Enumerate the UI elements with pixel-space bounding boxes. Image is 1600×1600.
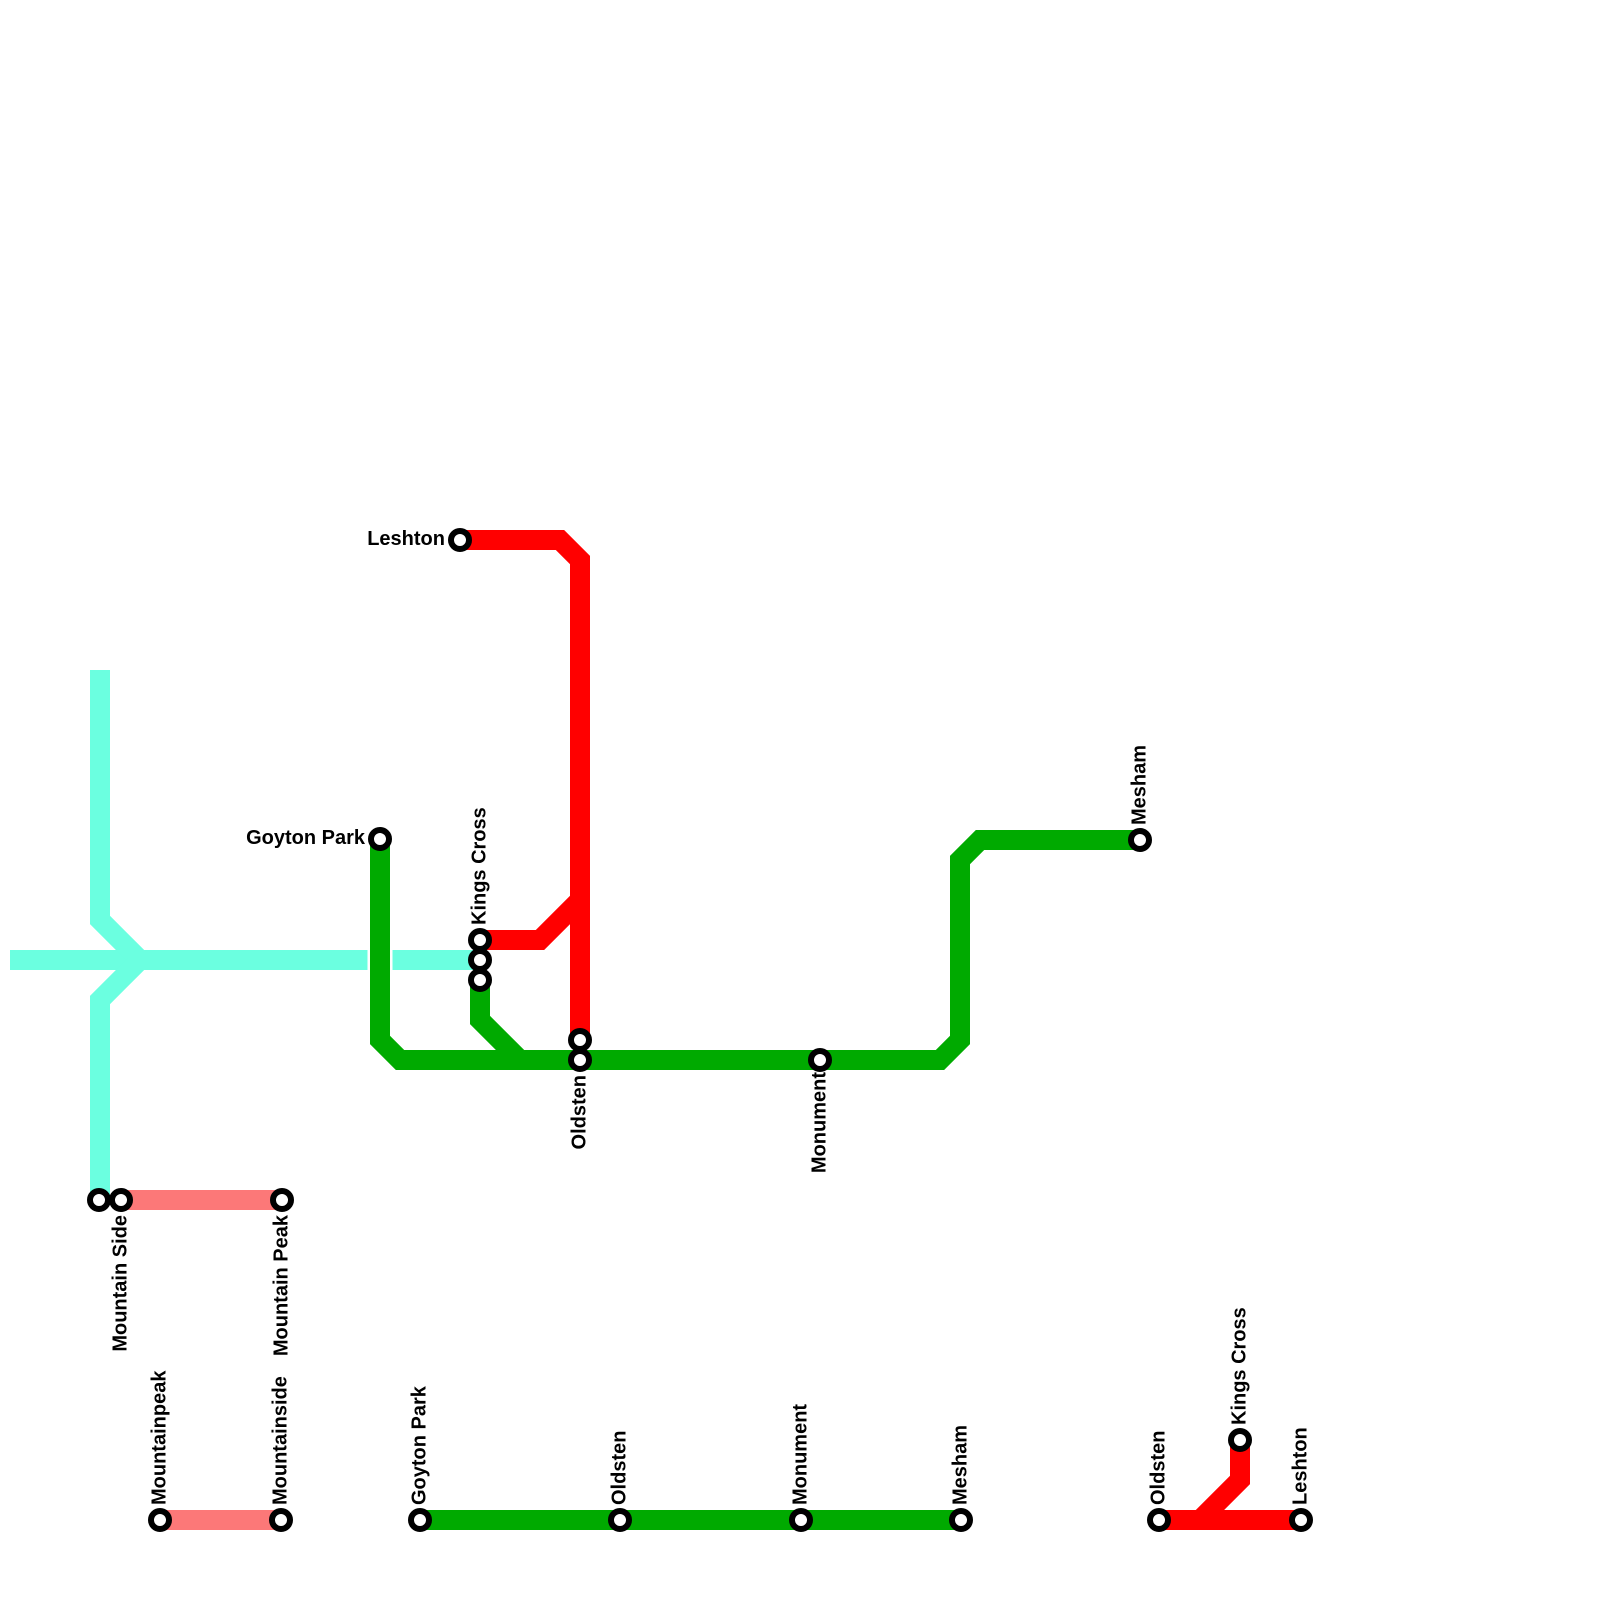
svg-text:Mountain Side: Mountain Side xyxy=(110,1215,132,1352)
svg-text:Monument: Monument xyxy=(809,1072,831,1173)
svg-text:Oldsten: Oldsten xyxy=(569,1075,591,1149)
svg-text:Mesham: Mesham xyxy=(950,1425,972,1505)
svg-text:Goyton Park: Goyton Park xyxy=(246,827,366,849)
svg-text:Monument: Monument xyxy=(790,1404,812,1505)
svg-text:Goyton Park: Goyton Park xyxy=(409,1385,431,1505)
svg-text:Mountainpeak: Mountainpeak xyxy=(149,1370,171,1505)
svg-text:Mesham: Mesham xyxy=(1129,745,1151,825)
svg-text:Oldsten: Oldsten xyxy=(609,1431,631,1505)
svg-text:Kings Cross: Kings Cross xyxy=(1229,1307,1251,1425)
svg-text:Leshton: Leshton xyxy=(367,528,445,550)
svg-text:Kings Cross: Kings Cross xyxy=(469,807,491,925)
svg-text:Mountainside: Mountainside xyxy=(270,1376,292,1505)
svg-text:Leshton: Leshton xyxy=(1290,1427,1312,1505)
svg-text:Mountain Peak: Mountain Peak xyxy=(271,1214,293,1356)
svg-text:Oldsten: Oldsten xyxy=(1148,1431,1170,1505)
